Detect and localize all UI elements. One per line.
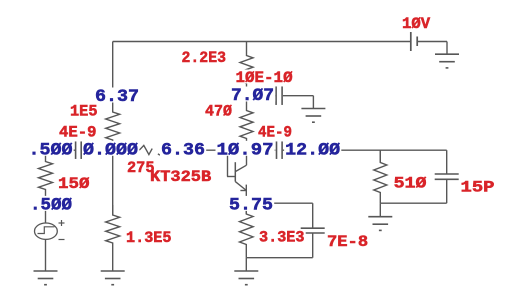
svg-text:12.ØØ: 12.ØØ	[285, 140, 340, 160]
svg-text:1.3E5: 1.3E5	[126, 229, 172, 247]
svg-text:3.3E3: 3.3E3	[259, 228, 305, 246]
svg-text:5.75: 5.75	[229, 196, 273, 216]
svg-text:7E-8: 7E-8	[327, 233, 368, 251]
svg-text:4E-9: 4E-9	[258, 124, 292, 142]
svg-text:15Ø: 15Ø	[58, 175, 90, 193]
svg-text:7.Ø7: 7.Ø7	[231, 86, 274, 106]
svg-text:.5ØØ: .5ØØ	[30, 196, 72, 216]
svg-text:Ø.ØØØ: Ø.ØØØ	[83, 140, 138, 160]
svg-text:6.36: 6.36	[161, 140, 205, 160]
svg-text:.5ØØ: .5ØØ	[29, 140, 73, 160]
svg-text:4E-9: 4E-9	[59, 124, 97, 142]
svg-text:15P: 15P	[461, 178, 495, 196]
svg-text:1ØV: 1ØV	[402, 15, 431, 33]
svg-text:1Ø.97: 1Ø.97	[217, 140, 274, 160]
svg-text:KT325B: KT325B	[150, 168, 212, 186]
svg-text:47Ø: 47Ø	[205, 102, 232, 120]
svg-text:2.2E3: 2.2E3	[182, 49, 227, 67]
svg-text:6.37: 6.37	[95, 87, 139, 107]
svg-text:1ØE-1Ø: 1ØE-1Ø	[236, 69, 294, 87]
svg-text:51Ø: 51Ø	[394, 174, 427, 192]
svg-text:1E5: 1E5	[70, 102, 98, 120]
